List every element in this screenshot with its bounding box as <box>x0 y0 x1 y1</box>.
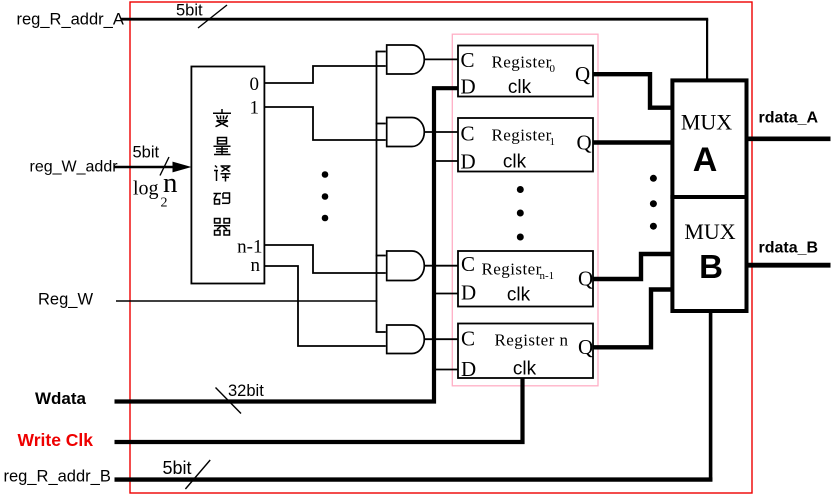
and gate G2 <box>387 118 425 147</box>
bus slash (32bit) <box>216 388 242 414</box>
decoder text 量 <box>214 138 231 155</box>
register Register n-1 box <box>458 251 593 307</box>
stub Reg_W to G2 <box>376 123 386 125</box>
wire decoder out 1 to G2 <box>264 107 385 140</box>
svg-text:C: C <box>461 252 475 276</box>
svg-text:0: 0 <box>250 74 260 95</box>
wire Reg_W <box>116 300 377 302</box>
dots between decoder outputs <box>322 171 329 178</box>
svg-text:D: D <box>461 357 476 381</box>
svg-text:log: log <box>133 178 159 200</box>
and gate G3 <box>387 251 425 281</box>
decoder text 译 <box>214 166 231 182</box>
wire G3 to Register n-1 C <box>424 265 459 267</box>
svg-text:A: A <box>693 141 718 179</box>
svg-text:B: B <box>699 248 723 285</box>
svg-text:Q: Q <box>577 131 592 155</box>
decoder text 变 <box>213 109 231 127</box>
svg-text:D: D <box>461 150 476 174</box>
svg-text:reg_W_addr: reg_W_addr <box>30 159 119 176</box>
register Register1 box <box>458 118 593 172</box>
wire reg_R_addr_A drop to MUX A select <box>706 19 708 80</box>
svg-text:Register: Register <box>492 126 552 145</box>
dots between MUX inputs <box>650 175 657 182</box>
wire G4 to Register n C <box>424 338 459 340</box>
MUX A box <box>672 80 746 197</box>
svg-text:C: C <box>461 122 475 146</box>
svg-text:n-1: n-1 <box>540 270 555 282</box>
svg-text:reg_R_addr_A: reg_R_addr_A <box>17 11 124 29</box>
MUX B box <box>672 197 746 311</box>
svg-text:MUX: MUX <box>684 219 735 244</box>
svg-text:Q: Q <box>575 62 590 86</box>
wire decoder out 0 to G1 <box>264 66 385 83</box>
arrowhead into decoder <box>173 162 192 173</box>
bus slash (reg_R_addr_B) <box>185 460 210 489</box>
svg-text:Write Clk: Write Clk <box>18 430 94 450</box>
module boundary (red) <box>130 2 752 493</box>
svg-text:C: C <box>461 327 475 351</box>
svg-text:Wdata: Wdata <box>35 389 87 408</box>
svg-text:rdata_B: rdata_B <box>759 240 819 257</box>
svg-text:5bit: 5bit <box>133 144 160 162</box>
and gate G4 <box>387 325 425 354</box>
svg-text:Register: Register <box>482 260 542 279</box>
wire reg_W_addr bus <box>115 166 179 168</box>
svg-text:clk: clk <box>507 285 531 306</box>
stub Wdata to Register1 D <box>434 160 458 162</box>
wire Register1 Q to MUX A <box>593 140 673 144</box>
svg-text:D: D <box>461 75 476 99</box>
Reg_W enable rail <box>376 52 378 333</box>
wire reg_R_addr_B rise to MUX B select <box>709 311 713 482</box>
svg-text:C: C <box>461 48 475 72</box>
svg-text:0: 0 <box>550 63 556 75</box>
svg-text:1: 1 <box>550 136 556 148</box>
svg-text:5bit: 5bit <box>176 1 203 19</box>
wire G2 to Register1 C <box>424 131 459 133</box>
dots between registers <box>517 186 524 193</box>
stub Wdata to Register n-1 D <box>434 293 458 295</box>
svg-text:32bit: 32bit <box>228 382 264 400</box>
svg-text:Reg_W: Reg_W <box>38 291 93 309</box>
svg-text:MUX: MUX <box>681 110 732 135</box>
wire decoder out n to G4 <box>264 266 385 346</box>
wire Register n-1 Q to MUX B <box>593 254 673 279</box>
stub Reg_W to G4 <box>376 331 386 333</box>
wire Write Clk to register clk <box>115 378 523 443</box>
svg-text:Register n: Register n <box>495 331 569 350</box>
svg-text:reg_R_addr_B: reg_R_addr_B <box>4 468 111 486</box>
svg-text:rdata_A: rdata_A <box>759 110 819 127</box>
stub Reg_W to G3 <box>376 255 386 257</box>
svg-text:D: D <box>461 281 476 305</box>
decoder text 码 <box>214 193 230 204</box>
register Register0 box <box>458 46 593 97</box>
decoder text 器 <box>214 219 230 236</box>
svg-text:clk: clk <box>508 77 532 98</box>
svg-text:n: n <box>251 255 261 276</box>
wire rdata_A <box>747 137 831 142</box>
and gate G1 <box>387 45 425 74</box>
wire reg_R_addr_B bus <box>115 477 713 481</box>
bus Wdata to register D rail <box>115 88 459 401</box>
wire Register0 Q to MUX A <box>593 74 673 108</box>
register bank outline (pink) <box>452 34 598 386</box>
stub Reg_W to G1 <box>376 51 386 53</box>
wire Register n Q to MUX B <box>593 290 673 348</box>
svg-text:Register: Register <box>492 53 552 72</box>
svg-text:Q: Q <box>578 267 593 291</box>
svg-text:Q: Q <box>578 335 593 359</box>
wire G1 to Register0 C <box>424 58 459 60</box>
stub Wdata to Register n D <box>434 369 458 371</box>
svg-text:n: n <box>163 167 178 199</box>
svg-text:clk: clk <box>513 359 537 380</box>
bus slash (reg_W_addr) <box>160 157 169 176</box>
wire reg_R_addr_A bus <box>121 18 709 21</box>
svg-text:5bit: 5bit <box>163 458 192 478</box>
decoder box U1 <box>191 67 264 284</box>
svg-text:clk: clk <box>503 152 527 173</box>
register Register n box <box>458 324 593 379</box>
wire decoder out n-1 to G3 <box>264 245 385 273</box>
bus slash (reg_R_addr_A) <box>198 5 227 28</box>
wire rdata_B <box>747 263 831 268</box>
svg-text:1: 1 <box>250 97 260 118</box>
